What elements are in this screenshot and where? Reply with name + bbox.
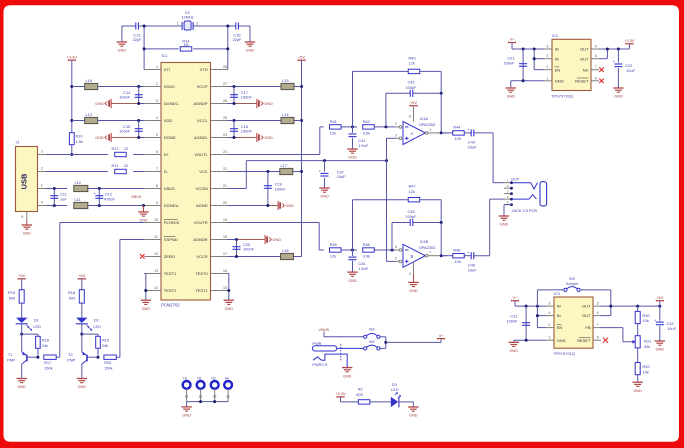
svg-text:R30: R30 xyxy=(643,313,651,318)
resistor R10 xyxy=(69,133,83,145)
wire VDDC net xyxy=(72,85,145,88)
LED D1 xyxy=(16,303,41,334)
wire VBUS net from USB xyxy=(46,187,144,190)
svg-text:IN: IN xyxy=(557,313,561,318)
svg-text:RESET: RESET xyxy=(577,338,591,343)
svg-text:8: 8 xyxy=(597,336,599,340)
svg-text:4: 4 xyxy=(156,116,158,120)
resistor R2 xyxy=(356,387,369,405)
svg-text:L14: L14 xyxy=(282,112,289,117)
svg-text:5: 5 xyxy=(21,215,23,219)
svg-text:6: 6 xyxy=(395,245,397,249)
svg-text:W3: W3 xyxy=(569,277,575,281)
op IC2 TPS79733Q body xyxy=(551,34,591,98)
svg-text:D1: D1 xyxy=(34,318,39,323)
supply V+ into IC2 xyxy=(508,37,544,51)
svg-text:PNP: PNP xyxy=(67,357,75,362)
resistor R46 xyxy=(363,242,375,258)
svg-text:100nF: 100nF xyxy=(241,94,253,99)
svg-text:XTI: XTI xyxy=(164,67,170,72)
ground for C16 xyxy=(245,26,255,53)
svg-text:1.5nF: 1.5nF xyxy=(358,266,369,271)
svg-text:OUT: OUT xyxy=(580,56,589,61)
svg-text:100nF: 100nF xyxy=(506,319,518,324)
svg-text:100nF: 100nF xyxy=(119,128,131,133)
svg-text:3: 3 xyxy=(548,302,550,306)
wire DGND net and arrow-ground xyxy=(95,133,144,142)
svg-text:Jumper: Jumper xyxy=(566,282,579,286)
svg-text:GND: GND xyxy=(273,238,282,242)
ground for mounting holes xyxy=(181,406,191,408)
svg-text:4: 4 xyxy=(41,201,43,205)
svg-text:GND: GND xyxy=(656,348,665,352)
svg-text:10k: 10k xyxy=(643,369,649,374)
svg-text:PCM2702: PCM2702 xyxy=(161,302,180,307)
svg-text:1: 1 xyxy=(546,76,548,80)
svg-text:2: 2 xyxy=(546,65,548,69)
resistor R41 xyxy=(330,119,342,135)
svg-text:3: 3 xyxy=(41,150,43,154)
svg-text:50k: 50k xyxy=(644,344,650,349)
svg-text:600: 600 xyxy=(69,296,76,301)
svg-text:3: 3 xyxy=(507,189,509,193)
wire AGNDP net and arrow-ground xyxy=(227,99,273,108)
capacitor C31 xyxy=(506,306,530,340)
capacitor C15 xyxy=(119,121,142,138)
potentiometer R31 xyxy=(635,324,651,349)
svg-text:R42: R42 xyxy=(363,119,370,124)
wire DGNDU net xyxy=(46,204,145,207)
svg-text:IN: IN xyxy=(557,304,561,309)
ferrite bead L15 xyxy=(281,78,294,90)
wire D- net xyxy=(46,171,144,173)
mounting hole H2 xyxy=(197,377,205,402)
svg-text:PNP: PNP xyxy=(7,357,15,362)
svg-text:5: 5 xyxy=(395,257,397,261)
svg-text:10uF: 10uF xyxy=(468,145,477,150)
wire IC3 GND net xyxy=(514,339,546,342)
svg-text:100nF: 100nF xyxy=(241,128,253,133)
svg-text:GND: GND xyxy=(409,414,418,418)
ground for TEST pins right xyxy=(224,299,234,301)
svg-text:L16: L16 xyxy=(86,78,93,83)
svg-text:12k: 12k xyxy=(330,253,336,258)
svg-text:GND: GND xyxy=(500,223,509,227)
resistor R14 xyxy=(180,39,192,51)
svg-text:13: 13 xyxy=(154,269,158,273)
svg-text:R11: R11 xyxy=(112,163,119,168)
resistor R30 xyxy=(635,306,650,324)
op-amp IC4B OPA2353 xyxy=(395,240,441,267)
svg-text:VBUS: VBUS xyxy=(319,327,330,332)
capacitor C20 xyxy=(233,240,255,257)
ground for D3 xyxy=(408,402,418,418)
svg-text:H3: H3 xyxy=(211,377,215,381)
svg-text:OUT: OUT xyxy=(580,47,589,52)
ferrite bead L14 xyxy=(281,112,294,124)
svg-text:7: 7 xyxy=(595,65,597,69)
ground for DGNDU xyxy=(138,206,148,223)
capacitor C21 xyxy=(503,49,527,81)
wire VDD net xyxy=(72,119,145,122)
svg-text:GND: GND xyxy=(343,374,352,378)
svg-text:12MHz: 12MHz xyxy=(181,15,193,20)
wire IC4B output xyxy=(440,254,448,257)
wire IC4A output xyxy=(440,131,448,134)
wire VCCR net xyxy=(227,255,301,258)
mounting hole H4 xyxy=(224,377,232,402)
svg-text:11: 11 xyxy=(154,235,158,239)
wire IC3 OUT net xyxy=(601,305,661,316)
svg-text:2: 2 xyxy=(548,323,550,327)
svg-text:TEST1: TEST1 xyxy=(195,288,208,293)
IC2 pins and labels xyxy=(544,45,599,84)
capacitor C16 xyxy=(233,23,250,42)
svg-text:AGNDR: AGNDR xyxy=(193,237,208,242)
svg-text:+5V: +5V xyxy=(18,273,25,278)
ground for C13 xyxy=(117,26,127,53)
svg-text:8: 8 xyxy=(156,184,158,188)
svg-text:4: 4 xyxy=(507,195,509,199)
svg-text:22: 22 xyxy=(223,167,227,171)
svg-text:VOUTR: VOUTR xyxy=(194,220,208,225)
resistor R12 xyxy=(112,146,129,157)
svg-text:GND: GND xyxy=(348,156,357,160)
wire right channel to jack xyxy=(490,199,504,256)
svg-text:+3.3V: +3.3V xyxy=(335,391,346,396)
resistor R47 feedback xyxy=(353,184,442,250)
svg-text:20: 20 xyxy=(223,201,227,205)
svg-text:15: 15 xyxy=(223,286,227,290)
wire IC3 IN/EN tie and jumper loop xyxy=(536,290,611,328)
IC3 pins and labels xyxy=(546,302,601,343)
wire PLYBCK to T1 base xyxy=(60,223,145,358)
ground for jack sleeve xyxy=(499,205,512,227)
svg-text:+5V: +5V xyxy=(298,54,305,59)
svg-text:R15: R15 xyxy=(8,290,15,295)
svg-text:GND: GND xyxy=(264,136,273,140)
svg-text:7: 7 xyxy=(156,167,158,171)
capacitor C44 xyxy=(349,250,369,272)
svg-text:8: 8 xyxy=(409,115,411,119)
svg-text:GND: GND xyxy=(95,136,104,140)
svg-text:5: 5 xyxy=(595,45,597,49)
svg-text:GND: GND xyxy=(142,307,151,311)
resistor R20 xyxy=(104,355,120,371)
svg-text:100nF: 100nF xyxy=(275,186,287,191)
capacitor C18 xyxy=(230,121,252,138)
capacitor C13 xyxy=(122,23,142,42)
svg-text:R46: R46 xyxy=(363,242,370,247)
svg-text:FB: FB xyxy=(585,325,590,330)
op-amp IC4A OPA2353 xyxy=(395,117,441,144)
svg-text:2: 2 xyxy=(41,167,43,171)
svg-text:GND: GND xyxy=(557,338,566,343)
svg-text:12: 12 xyxy=(154,252,158,256)
svg-text:GND: GND xyxy=(17,385,26,389)
svg-text:L12: L12 xyxy=(75,180,82,185)
X mark unused pin ZERO xyxy=(140,254,145,259)
wire AGNDR net and arrow-ground xyxy=(227,235,281,244)
resistor R15 xyxy=(8,290,24,303)
svg-text:3.9k: 3.9k xyxy=(363,253,370,258)
svg-text:1.5nF: 1.5nF xyxy=(358,143,369,148)
ground for TEST pins left xyxy=(141,299,151,301)
svg-text:100: 100 xyxy=(455,136,462,141)
svg-text:+5V: +5V xyxy=(656,295,663,300)
svg-text:4: 4 xyxy=(548,311,550,315)
svg-text:GND: GND xyxy=(409,289,418,293)
wire R46 to IC4B inverting input xyxy=(374,249,396,252)
svg-text:100nF: 100nF xyxy=(119,94,131,99)
svg-text:A: A xyxy=(411,131,414,136)
svg-text:L18: L18 xyxy=(282,248,289,253)
wire D+ net xyxy=(46,154,144,156)
svg-text:12k: 12k xyxy=(330,130,336,135)
svg-text:GND: GND xyxy=(510,349,519,353)
connector JACK 3.5 PCB xyxy=(504,177,547,213)
svg-text:R45: R45 xyxy=(330,242,337,247)
ground for C41 xyxy=(347,148,357,150)
svg-text:1: 1 xyxy=(177,22,179,26)
svg-text:VCCR: VCCR xyxy=(196,254,207,259)
svg-text:AGNDP: AGNDP xyxy=(193,101,208,106)
svg-text:AGND: AGND xyxy=(196,203,208,208)
ground for PWR jack xyxy=(342,367,352,369)
svg-text:OPA2353: OPA2353 xyxy=(419,246,435,250)
svg-text:VDDC: VDDC xyxy=(164,84,175,89)
svg-text:DGNDC: DGNDC xyxy=(164,101,179,106)
LED D2 xyxy=(76,303,101,334)
svg-text:IC2: IC2 xyxy=(552,34,558,38)
wire TEST0/TEST1 tie right xyxy=(227,274,230,301)
svg-text:TEST1: TEST1 xyxy=(164,271,177,276)
svg-text:LED: LED xyxy=(93,324,101,329)
svg-text:L17: L17 xyxy=(281,163,288,168)
svg-text:R31: R31 xyxy=(644,338,651,343)
svg-text:23: 23 xyxy=(223,150,227,154)
capacitor C12 polarized xyxy=(94,189,116,206)
capacitor C14 xyxy=(119,87,142,104)
svg-text:150k: 150k xyxy=(44,366,52,371)
svg-text:EN: EN xyxy=(555,67,561,72)
wire mounting hole ground bus xyxy=(187,400,229,407)
svg-text:4: 4 xyxy=(409,272,411,276)
svg-text:W1: W1 xyxy=(369,327,375,332)
svg-text:R12: R12 xyxy=(112,146,119,151)
svg-text:OUT: OUT xyxy=(582,313,591,318)
svg-text:VBUS: VBUS xyxy=(164,186,175,191)
svg-text:R10: R10 xyxy=(76,134,84,139)
svg-text:100nF: 100nF xyxy=(503,61,515,66)
svg-text:OUT: OUT xyxy=(582,304,591,309)
svg-text:ZERO: ZERO xyxy=(164,254,175,259)
resistor R17 xyxy=(44,355,60,371)
svg-text:IN: IN xyxy=(555,56,559,61)
ferrite bead L18 xyxy=(281,248,294,260)
svg-text:TPS79701Q: TPS79701Q xyxy=(553,351,575,356)
svg-text:4: 4 xyxy=(546,54,548,58)
supply +5V for D2 circuit xyxy=(78,273,86,290)
svg-text:VCCL: VCCL xyxy=(197,118,208,123)
svg-text:R20: R20 xyxy=(104,360,112,365)
svg-text:H1: H1 xyxy=(183,377,187,381)
resistor R18 xyxy=(68,290,84,303)
svg-text:7: 7 xyxy=(429,251,431,255)
svg-text:+3.3V: +3.3V xyxy=(67,54,78,59)
jumper W1 xyxy=(364,335,367,338)
svg-text:AGNDL: AGNDL xyxy=(194,135,209,140)
wire R42 to IC4A inverting input xyxy=(374,125,396,128)
jumper W3 xyxy=(564,277,580,292)
wire VCC net xyxy=(227,170,301,173)
crystal X1 xyxy=(177,10,198,30)
svg-text:150k: 150k xyxy=(104,366,112,371)
svg-text:EN: EN xyxy=(557,325,563,330)
wire IC4A noninverting input to VCOM xyxy=(387,138,396,160)
X mark IC2 NC pin xyxy=(599,67,604,72)
svg-text:L13: L13 xyxy=(86,112,93,117)
wire emitter node T2 xyxy=(80,333,98,352)
svg-text:1: 1 xyxy=(507,179,509,183)
wire node M2 xyxy=(341,249,357,252)
capacitor C46 polarized xyxy=(464,249,490,272)
svg-text:XTO: XTO xyxy=(200,67,208,72)
svg-text:3: 3 xyxy=(395,134,397,138)
wire IC2 GND net xyxy=(511,79,544,88)
wire node M1 xyxy=(341,125,357,128)
svg-text:GND: GND xyxy=(507,95,516,99)
svg-text:1: 1 xyxy=(548,336,550,340)
transistor T1 PNP xyxy=(7,352,39,379)
svg-text:GND: GND xyxy=(286,204,295,208)
svg-text:H2: H2 xyxy=(197,377,201,381)
transistor T2 PNP xyxy=(67,352,99,379)
svg-text:D+: D+ xyxy=(164,152,170,157)
X mark IC2 RESET pin xyxy=(599,79,604,84)
svg-text:L15: L15 xyxy=(282,78,289,83)
svg-text:PWR2.5: PWR2.5 xyxy=(312,362,327,367)
svg-text:VCCP: VCCP xyxy=(197,84,208,89)
svg-text:GND: GND xyxy=(78,385,87,389)
svg-text:26: 26 xyxy=(223,99,227,103)
wire SSPND to T2 base xyxy=(120,240,144,358)
svg-text:R17: R17 xyxy=(44,360,51,365)
svg-text:GND: GND xyxy=(555,78,564,83)
svg-text:8: 8 xyxy=(595,76,597,80)
wire selected power to V+ xyxy=(386,333,445,343)
supply +5V for IC4A xyxy=(409,100,418,122)
svg-text:L11: L11 xyxy=(75,197,81,202)
svg-text:TPS79733Q: TPS79733Q xyxy=(551,94,573,99)
svg-text:LED: LED xyxy=(33,324,41,329)
svg-text:22: 22 xyxy=(124,146,128,151)
IC1 pins and pin labels xyxy=(144,65,227,293)
jumper W2 xyxy=(364,337,388,350)
svg-text:V+: V+ xyxy=(510,37,516,42)
svg-text:SSPND: SSPND xyxy=(164,237,178,242)
svg-text:1: 1 xyxy=(41,184,43,188)
svg-text:7: 7 xyxy=(597,323,599,327)
svg-text:10uF: 10uF xyxy=(468,268,477,273)
svg-text:GND: GND xyxy=(23,232,32,236)
resistor R11 xyxy=(112,163,129,174)
svg-text:19: 19 xyxy=(223,218,227,222)
wire XTI/XTO crystal net xyxy=(140,25,234,70)
svg-text:DGNDU: DGNDU xyxy=(164,203,179,208)
svg-text:DGND: DGND xyxy=(164,135,176,140)
svg-text:1M: 1M xyxy=(184,43,189,47)
ground for C44 xyxy=(347,271,357,273)
supply +5V for D1 circuit xyxy=(18,273,26,290)
svg-text:GND: GND xyxy=(182,414,191,418)
ground for T1 xyxy=(17,378,27,380)
svg-text:1uF: 1uF xyxy=(60,196,67,201)
svg-text:12k: 12k xyxy=(409,61,415,66)
svg-text:V+: V+ xyxy=(439,333,445,338)
resistor R45 xyxy=(330,242,342,258)
svg-text:GND: GND xyxy=(614,95,623,99)
wire IC3 FB net xyxy=(601,328,636,344)
capacitor C17 xyxy=(230,87,252,104)
net label VBUS at power selector xyxy=(319,327,364,337)
svg-text:18: 18 xyxy=(223,235,227,239)
mounting hole H3 xyxy=(211,377,219,402)
ground for IC2 xyxy=(506,87,516,89)
svg-text:IC3: IC3 xyxy=(554,292,560,296)
LED D3 xyxy=(370,382,413,408)
svg-text:1: 1 xyxy=(429,128,431,132)
svg-text:12k: 12k xyxy=(409,189,415,194)
svg-text:2: 2 xyxy=(196,22,198,26)
wire AGND net and arrow-ground xyxy=(227,201,294,210)
svg-text:3.9k: 3.9k xyxy=(363,130,370,135)
capacitor C22 polarized xyxy=(613,49,636,88)
svg-text:22pF: 22pF xyxy=(233,37,242,42)
svg-text:+3.3V: +3.3V xyxy=(624,38,635,43)
ferrite bead L16 xyxy=(85,78,98,90)
svg-text:TEST0: TEST0 xyxy=(195,271,208,276)
ground for T2 xyxy=(77,378,87,380)
svg-text:T2: T2 xyxy=(68,352,73,357)
svg-text:R41: R41 xyxy=(330,119,337,124)
svg-text:W2: W2 xyxy=(369,339,375,344)
svg-text:VBUS: VBUS xyxy=(131,194,142,199)
svg-text:D-: D- xyxy=(164,169,169,174)
svg-text:R18: R18 xyxy=(68,290,75,295)
svg-text:24: 24 xyxy=(223,133,227,137)
svg-text:LED: LED xyxy=(391,387,399,392)
svg-text:D2: D2 xyxy=(94,318,99,323)
X mark IC3 RESET pin xyxy=(603,338,608,343)
ferrite bead L13 xyxy=(85,112,98,124)
wire IC2 OUT net xyxy=(599,48,629,59)
svg-text:VDD: VDD xyxy=(164,118,173,123)
svg-text:22: 22 xyxy=(124,163,128,168)
capacitor C32 polarized xyxy=(654,306,676,341)
svg-text:24k: 24k xyxy=(42,343,48,348)
resistor R48 xyxy=(441,247,464,264)
svg-text:TEST2: TEST2 xyxy=(164,288,177,293)
capacitor C42 feedback xyxy=(386,80,443,133)
svg-text:100pF: 100pF xyxy=(406,214,418,219)
ground for USB shield xyxy=(22,220,32,236)
svg-text:VCOM: VCOM xyxy=(196,186,208,191)
svg-text:JACK 3.5 PCB: JACK 3.5 PCB xyxy=(512,208,538,213)
svg-text:100nF: 100nF xyxy=(243,246,255,251)
svg-text:PLYBCK: PLYBCK xyxy=(164,220,180,225)
svg-text:10uF: 10uF xyxy=(337,174,346,179)
